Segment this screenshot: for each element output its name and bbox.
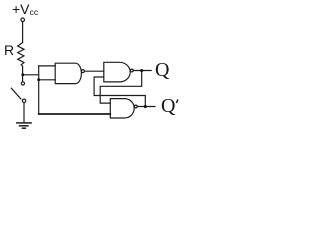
junction dot Q: [140, 69, 143, 72]
resistor R1 zigzag: [18, 43, 24, 67]
label Q': [161, 95, 175, 118]
junction dot node X: [21, 73, 24, 76]
label R: [4, 42, 14, 58]
input rail vertical: [38, 66, 40, 114]
prime tick of Q' label: [176, 100, 178, 104]
wire A: Q feedback down: [100, 71, 142, 104]
junction dot rail/gate1 lower input: [37, 78, 40, 81]
Vcc terminal circle: [21, 18, 25, 22]
NAND gate U1 bubble: [81, 70, 84, 73]
NAND gate U3 bubble: [134, 105, 137, 108]
label +Vcc: [12, 1, 38, 17]
gate1 upper input stub: [39, 65, 56, 67]
switch top contact circle: [21, 82, 24, 85]
wire Vcc to resistor: [22, 22, 24, 43]
NAND gate U2 bubble: [130, 69, 133, 72]
wire B: Q' feedback to U2 input: [94, 77, 145, 107]
NAND gate U2 body: [104, 62, 130, 82]
label Q: [155, 59, 169, 82]
switch arm: [11, 88, 21, 99]
wire U3 output to Q': [138, 106, 155, 108]
ground bar 3: [22, 127, 25, 129]
NAND gate U1 body: [55, 63, 81, 83]
node X wire to gate rail: [23, 74, 39, 76]
ground bar 1: [17, 122, 31, 124]
wire U2 output to Q: [133, 70, 151, 72]
wire resistor to switch top contact: [22, 66, 24, 82]
junction dot Q': [144, 105, 147, 108]
NAND gate U3 body: [110, 99, 134, 118]
gate1 lower input stub: [39, 79, 56, 81]
ground bar 2: [20, 125, 28, 127]
switch bottom contact circle: [22, 99, 25, 102]
wire switch to ground: [23, 103, 25, 123]
wire U1 output to U2 input: [85, 70, 104, 72]
bottom wire to gate3 lower input: [39, 113, 111, 115]
